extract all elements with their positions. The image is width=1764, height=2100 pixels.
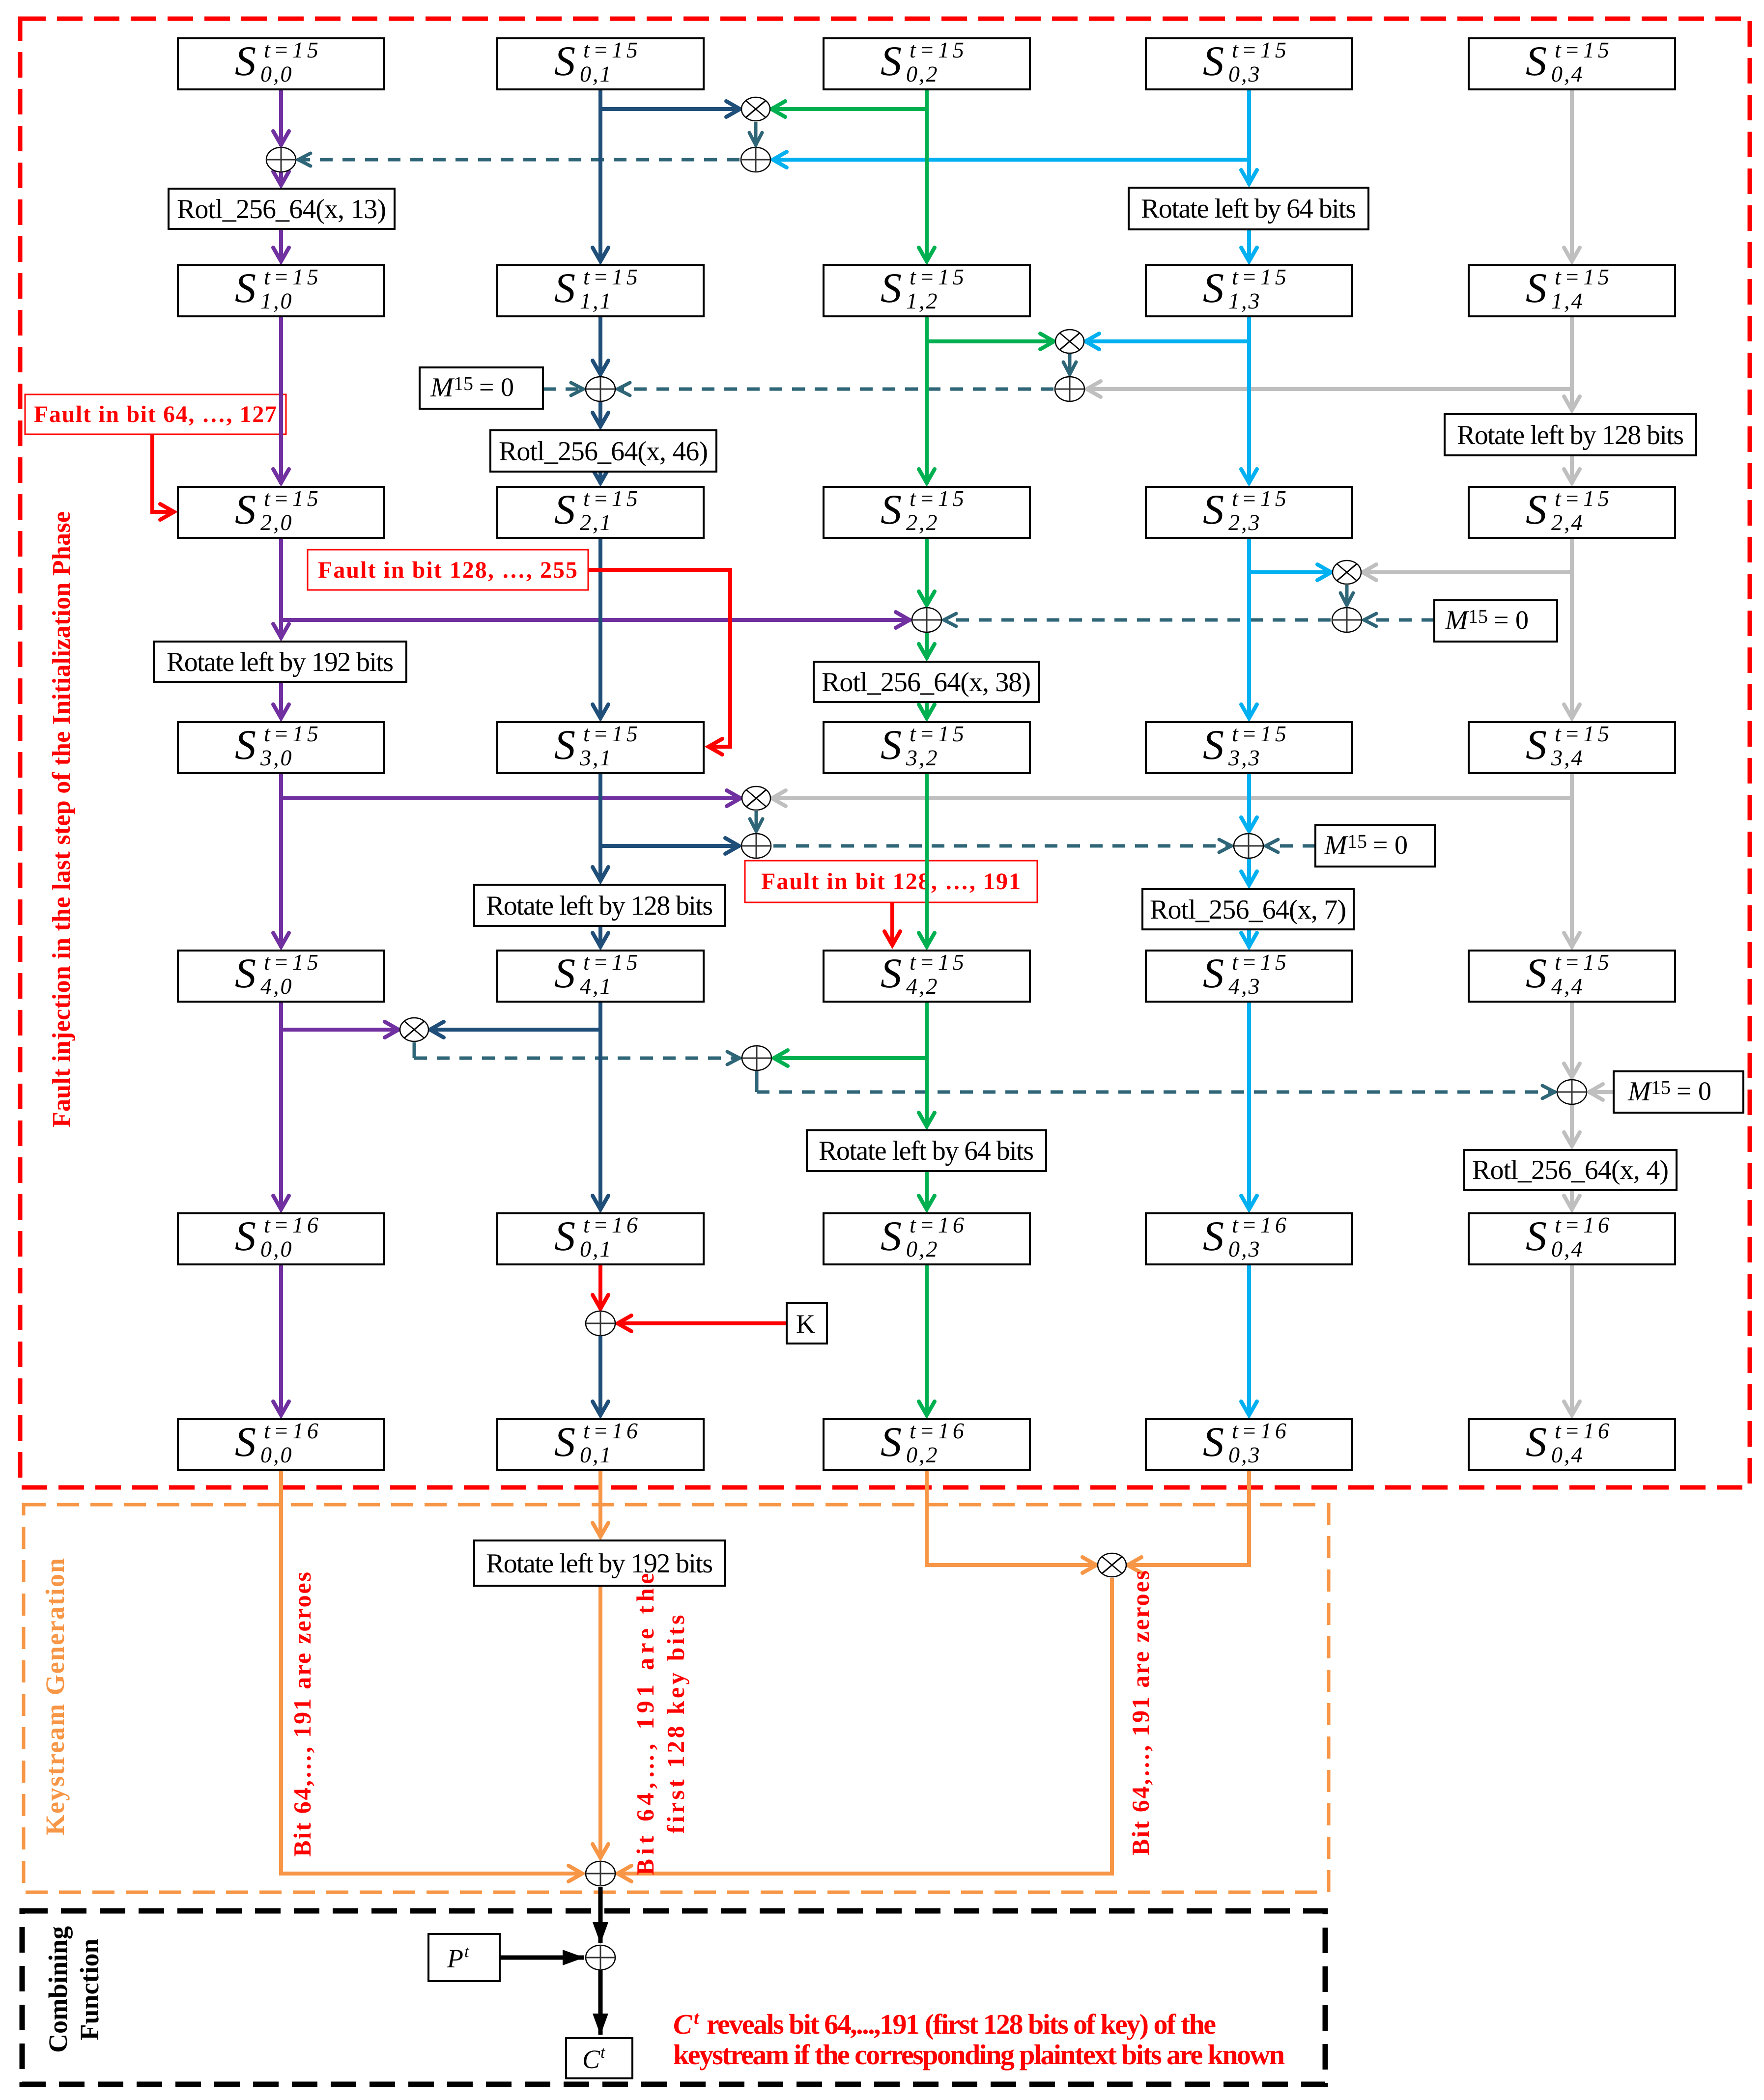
wire col1 S41->S01t16 (598, 1002, 602, 1210)
wire col4 S14->Rot128 box (1570, 316, 1574, 411)
wire col3 S03->Rot64 box (1247, 89, 1251, 185)
process box Rotate left by 64 bits (col2) (807, 1130, 1046, 1171)
process box Rotl_256_64(x,46) (490, 430, 716, 472)
wire X5 stub down teal (413, 1042, 416, 1058)
wire col3 branch to X3 (1249, 570, 1332, 574)
wire col0 S40->S00t16 (279, 1002, 283, 1210)
wire col3 S43->S03t16 (1247, 1002, 1251, 1210)
state box S0,2 t=16 (lower) (824, 1419, 1030, 1470)
wire col4 branch to X3 (1362, 570, 1572, 574)
state box S4,1 t=15 (497, 951, 704, 1002)
svg-text:Fault in bit 128, …, 255: Fault in bit 128, …, 255 (318, 557, 577, 583)
dashed wire M4box->O4b (1265, 844, 1315, 848)
wire col4 branch to X4 (771, 796, 1572, 800)
svg-text:Keystream Generation: Keystream Generation (40, 1558, 70, 1835)
svg-text:Rotate left by 128 bits: Rotate left by 128 bits (1457, 420, 1684, 450)
state box S2,3 t=15 (1146, 487, 1352, 538)
svg-text:Bit 64,…, 191 are zeroes: Bit 64,…, 191 are zeroes (1127, 1570, 1154, 1855)
wire col2 O3b->Rotl38 box (925, 633, 929, 659)
XOR symbol O6 key add (586, 1311, 615, 1336)
multiplier (AND) symbol X1 (741, 97, 770, 121)
wire col1 branch to X5 (429, 1028, 600, 1032)
wire col2 S22->xor O3b (925, 538, 929, 606)
label box K (787, 1303, 827, 1344)
wire col4 S44->xor O5b (1570, 1002, 1574, 1078)
svg-text:Fault injection in the last st: Fault injection in the last step of the … (48, 511, 76, 1127)
state box S4,4 t=15 (1469, 951, 1675, 1002)
svg-text:keystream if the correspondin: keystream if the corresponding plaintext… (673, 2039, 1285, 2071)
svg-text:Rotate left by 128 bits: Rotate left by 128 bits (486, 891, 713, 921)
state box S4,2 t=15 (824, 951, 1030, 1002)
dashed wire M2box->O2b (543, 388, 584, 391)
wire col4 O5b->Rotl4 box (1570, 1105, 1574, 1147)
wire col1 branch to X1 (600, 107, 741, 111)
state box S1,0 t=15 (178, 265, 384, 316)
wire orange col2 S02t16b->X6 (927, 1470, 1097, 1565)
state box S4,3 t=15 (1146, 951, 1352, 1002)
dashed wire X5->O5a (414, 1057, 740, 1060)
state box S2,1 t=15 (497, 487, 704, 538)
wire col3 S23->S33 (1247, 538, 1251, 719)
fault label bits 128..191 (745, 861, 1037, 902)
XOR symbol O2b (586, 377, 615, 401)
wire orange col3 S03t16b->X6 (1127, 1470, 1249, 1565)
wire orange X6->O7 (617, 1578, 1112, 1874)
state box S0,2 t=16 (upper) (824, 1213, 1030, 1264)
wire col2 branch to O5a (773, 1056, 927, 1060)
wire col0 branch to X5 (281, 1028, 399, 1032)
dashed frame: fault injection (initialization phase) region (20, 19, 1750, 1487)
wire col4 branch to O2a (1086, 387, 1572, 391)
state box S0,4 t=15 (1469, 38, 1675, 89)
multiplier (AND) symbol X5 (400, 1018, 428, 1041)
wire col0 branch to X4 (281, 796, 741, 800)
svg-text:Rotate left by 64 bits: Rotate left by 64 bits (819, 1136, 1034, 1166)
XOR symbol O3b (912, 608, 941, 632)
svg-text:Rotl_256_64(x, 4): Rotl_256_64(x, 4) (1472, 1155, 1669, 1185)
wire col2 S12->S22 (925, 316, 929, 484)
XOR symbol O2a (1055, 377, 1084, 401)
state box S1,3 t=15 (1146, 265, 1352, 316)
svg-text:Bit 64,…, 191 are zeroes: Bit 64,…, 191 are zeroes (288, 1572, 316, 1857)
svg-text:Fault in bit 128, …, 191: Fault in bit 128, …, 191 (761, 868, 1021, 895)
wire black O7->O8 (598, 1887, 603, 1943)
state box S0,2 t=15 (824, 38, 1030, 89)
multiplier (AND) symbol X4 (742, 786, 770, 810)
wire col4 S04t16->S04t16b (1570, 1264, 1574, 1416)
wire col0 S20->Rot192 box (279, 538, 283, 639)
state box S3,2 t=15 (824, 722, 1030, 773)
wire black O8->Ct (598, 1970, 603, 2035)
process box Rotl_256_64(x,4) (1464, 1150, 1677, 1190)
wire col2 branch to X2 (927, 339, 1055, 343)
state box S0,3 t=16 (upper) (1146, 1213, 1352, 1264)
wire col4 S24->S34 (1570, 538, 1574, 719)
XOR symbol O5b (1557, 1080, 1587, 1104)
svg-text:Rotl_256_64(x, 7): Rotl_256_64(x, 7) (1150, 895, 1346, 925)
XOR symbol O3a (1332, 608, 1362, 632)
state box S0,1 t=16 (lower) (497, 1419, 704, 1470)
wire fault1 label->S20 (152, 434, 175, 512)
wire col2 S02->S12 (925, 89, 929, 262)
wire col1 O6->S01t16b (598, 1336, 602, 1416)
XOR symbol O4a (741, 834, 771, 858)
process box Rotate left by 64 bits (col3) (1129, 188, 1368, 229)
wire red S01t16->O6 (598, 1264, 602, 1310)
label box Pt (428, 1934, 500, 1981)
dashed frame: keystream generation region (24, 1505, 1329, 1892)
state box S3,1 t=15 (497, 722, 704, 773)
wire orange col0 S00t16b->O7 (281, 1470, 583, 1874)
wire M5box->O5b gray (1588, 1090, 1614, 1094)
svg-text:Rotate left by 64 bits: Rotate left by 64 bits (1141, 194, 1356, 224)
dashed wire M3box->O3a (1363, 618, 1434, 622)
svg-text:C: C (673, 2008, 693, 2040)
wire col1 Rotl46->S21 (598, 472, 602, 484)
state box S1,2 t=15 (824, 265, 1030, 316)
process box Rotl_256_64(x,7) (1142, 889, 1354, 929)
wire col4 Rotl4->S04t16 (1570, 1190, 1574, 1210)
state box S0,4 t=16 (lower) (1469, 1419, 1675, 1470)
wire O5a stub down teal (755, 1071, 759, 1092)
XOR symbol O7 keystream combine (586, 1861, 615, 1886)
fault label bits 64..127 (25, 394, 286, 434)
state box S0,1 t=15 (497, 38, 704, 89)
wire black Pt->O8 (500, 1956, 584, 1960)
label box Ct (566, 2038, 632, 2078)
wire col1 S21->S31 (598, 538, 602, 719)
wire col3 O4b->Rotl7 box (1247, 859, 1251, 886)
svg-text:Rotl_256_64(x, 46): Rotl_256_64(x, 46) (499, 436, 708, 467)
svg-text:reveals bit 64,...,191 (first: reveals bit 64,...,191 (first 128 bits o… (707, 2008, 1216, 2040)
wire col4 S34->S44 (1570, 773, 1574, 948)
process box Rotate left by 128 bits (col1) (474, 885, 725, 926)
wire X1->O1a teal (754, 122, 758, 146)
wire col3 S33->xor O4b (1247, 773, 1251, 832)
state box S2,4 t=15 (1469, 487, 1675, 538)
dashed wire O5a->O5b (757, 1091, 1556, 1094)
wire col1 S31->Rot128 box (598, 773, 602, 882)
state box S3,3 t=15 (1146, 722, 1352, 773)
process box Rotl_256_64(x,38) (814, 662, 1039, 702)
dashed frame: combining function region (22, 1911, 1325, 2084)
svg-text:t: t (694, 2008, 700, 2028)
state box S2,0 t=15 (178, 487, 384, 538)
process box Rotate left by 192 bits (col1 keystream) (474, 1540, 725, 1586)
state box S0,0 t=16 (upper) (178, 1213, 384, 1264)
state box S1,1 t=15 (497, 265, 704, 316)
label box M4 M15=0 (1315, 825, 1435, 867)
state box S3,0 t=15 (178, 722, 384, 773)
XOR symbol O1a (741, 147, 770, 172)
dashed wire O3a->O3b (943, 618, 1331, 622)
svg-text:Rotate left by 192 bits: Rotate left by 192 bits (167, 647, 394, 677)
wire col0 branch to O3b (281, 618, 910, 622)
label box M2 M15=0 (420, 367, 543, 409)
wire X4->O4a teal (755, 811, 758, 832)
svg-text:Rotl_256_64(x, 38): Rotl_256_64(x, 38) (822, 667, 1031, 698)
wire col2 S42->Rot64 box (925, 1002, 929, 1127)
wire col2 Rot64->S02t16 (925, 1171, 929, 1210)
wire col3 Rotl7->S43 (1247, 929, 1251, 948)
wire col1 Rot128->S41 (598, 926, 602, 948)
label box M5 M15=0 (1614, 1071, 1743, 1113)
wire col0 S00->xor O1b (279, 89, 283, 146)
svg-text:K: K (796, 1309, 815, 1339)
XOR symbol O5a (742, 1046, 771, 1070)
wire col3 branch to X2 (1084, 339, 1249, 343)
wire col1 branch to O4a (600, 844, 740, 848)
multiplier (AND) symbol X6 keystream (1098, 1553, 1126, 1577)
state box S3,4 t=15 (1469, 722, 1675, 773)
state box S0,3 t=15 (1146, 38, 1352, 89)
state box S0,3 t=16 (lower) (1146, 1419, 1352, 1470)
process box Rotate left by 192 bits (col0) (154, 642, 406, 682)
wire orange col1 Rot192->O7 (598, 1586, 602, 1859)
wire col3 S03t16->S03t16b (1247, 1264, 1251, 1416)
state box S0,0 t=16 (lower) (178, 1419, 384, 1470)
dashed wire O4a->O4b (773, 844, 1232, 848)
label box M3 M15=0 (1434, 600, 1557, 642)
state box S1,4 t=15 (1469, 265, 1675, 316)
state box S2,2 t=15 (824, 487, 1030, 538)
wire col0 S10->S20 (279, 316, 283, 484)
wire col0 Rotl13->S10 (279, 229, 283, 262)
state box S0,4 t=16 (upper) (1469, 1213, 1675, 1264)
state box S0,0 t=15 (178, 38, 384, 89)
svg-text:Rotate left by 192 bits: Rotate left by 192 bits (486, 1548, 713, 1579)
wire col2 S32->S42 (925, 773, 929, 948)
wire col2 S02t16->S02t16b (925, 1264, 929, 1416)
wire col0 Rot192->S30 (279, 682, 283, 719)
wire col1 S11->xor O2b (598, 316, 602, 375)
XOR symbol O1b (266, 147, 296, 172)
wire col1 O2b->Rotl46 box (598, 402, 602, 427)
wire col2 Rotl38->S32 (925, 702, 929, 719)
fault label bits 128..255 (308, 550, 588, 590)
process box Rotl_256_64(x,13) (169, 189, 395, 229)
state box S0,1 t=16 (upper) (497, 1213, 704, 1264)
wire col4 S04->S14 (1570, 89, 1574, 262)
wire fault3 label->S42 (890, 902, 894, 946)
wire col2 branch to X1 (770, 107, 927, 111)
wire col3 branch to O1a (772, 158, 1249, 162)
XOR symbol O8 plaintext xor (586, 1945, 615, 1970)
wire X3->O3a teal (1345, 585, 1349, 606)
wire col0 S00t16->S00t16b (279, 1264, 283, 1416)
wire X2->O2a teal (1068, 354, 1072, 375)
wire col1 S01->S11 (598, 89, 602, 262)
wire col3 S13->S23 (1247, 316, 1251, 484)
wire red Kbox->O6 (617, 1321, 787, 1325)
wire fault2 label->S31 (588, 570, 730, 747)
state box S4,0 t=15 (178, 951, 384, 1002)
dashed wire O2a->O2b (617, 388, 1053, 391)
wire col4 Rot128->S24 (1570, 455, 1574, 484)
wire col3 Rot64->S13 (1247, 229, 1251, 262)
process box Rotate left by 128 bits (col4) (1445, 414, 1696, 455)
dashed wire O1a->O1b (297, 158, 740, 162)
wire orange col1 S01t16b->Rot192 (598, 1470, 602, 1538)
svg-text:Rotl_256_64(x, 13): Rotl_256_64(x, 13) (177, 194, 386, 224)
svg-text:Fault in bit 64, …, 127: Fault in bit 64, …, 127 (34, 401, 277, 427)
multiplier (AND) symbol X2 (1055, 330, 1084, 353)
wire col0 S30->S40 (279, 773, 283, 948)
note Ct reveals (red) (673, 2008, 1285, 2071)
multiplier (AND) symbol X3 (1333, 560, 1361, 584)
wire col0 O1b->Rotl13 box (279, 172, 283, 186)
XOR symbol O4b (1234, 834, 1263, 858)
